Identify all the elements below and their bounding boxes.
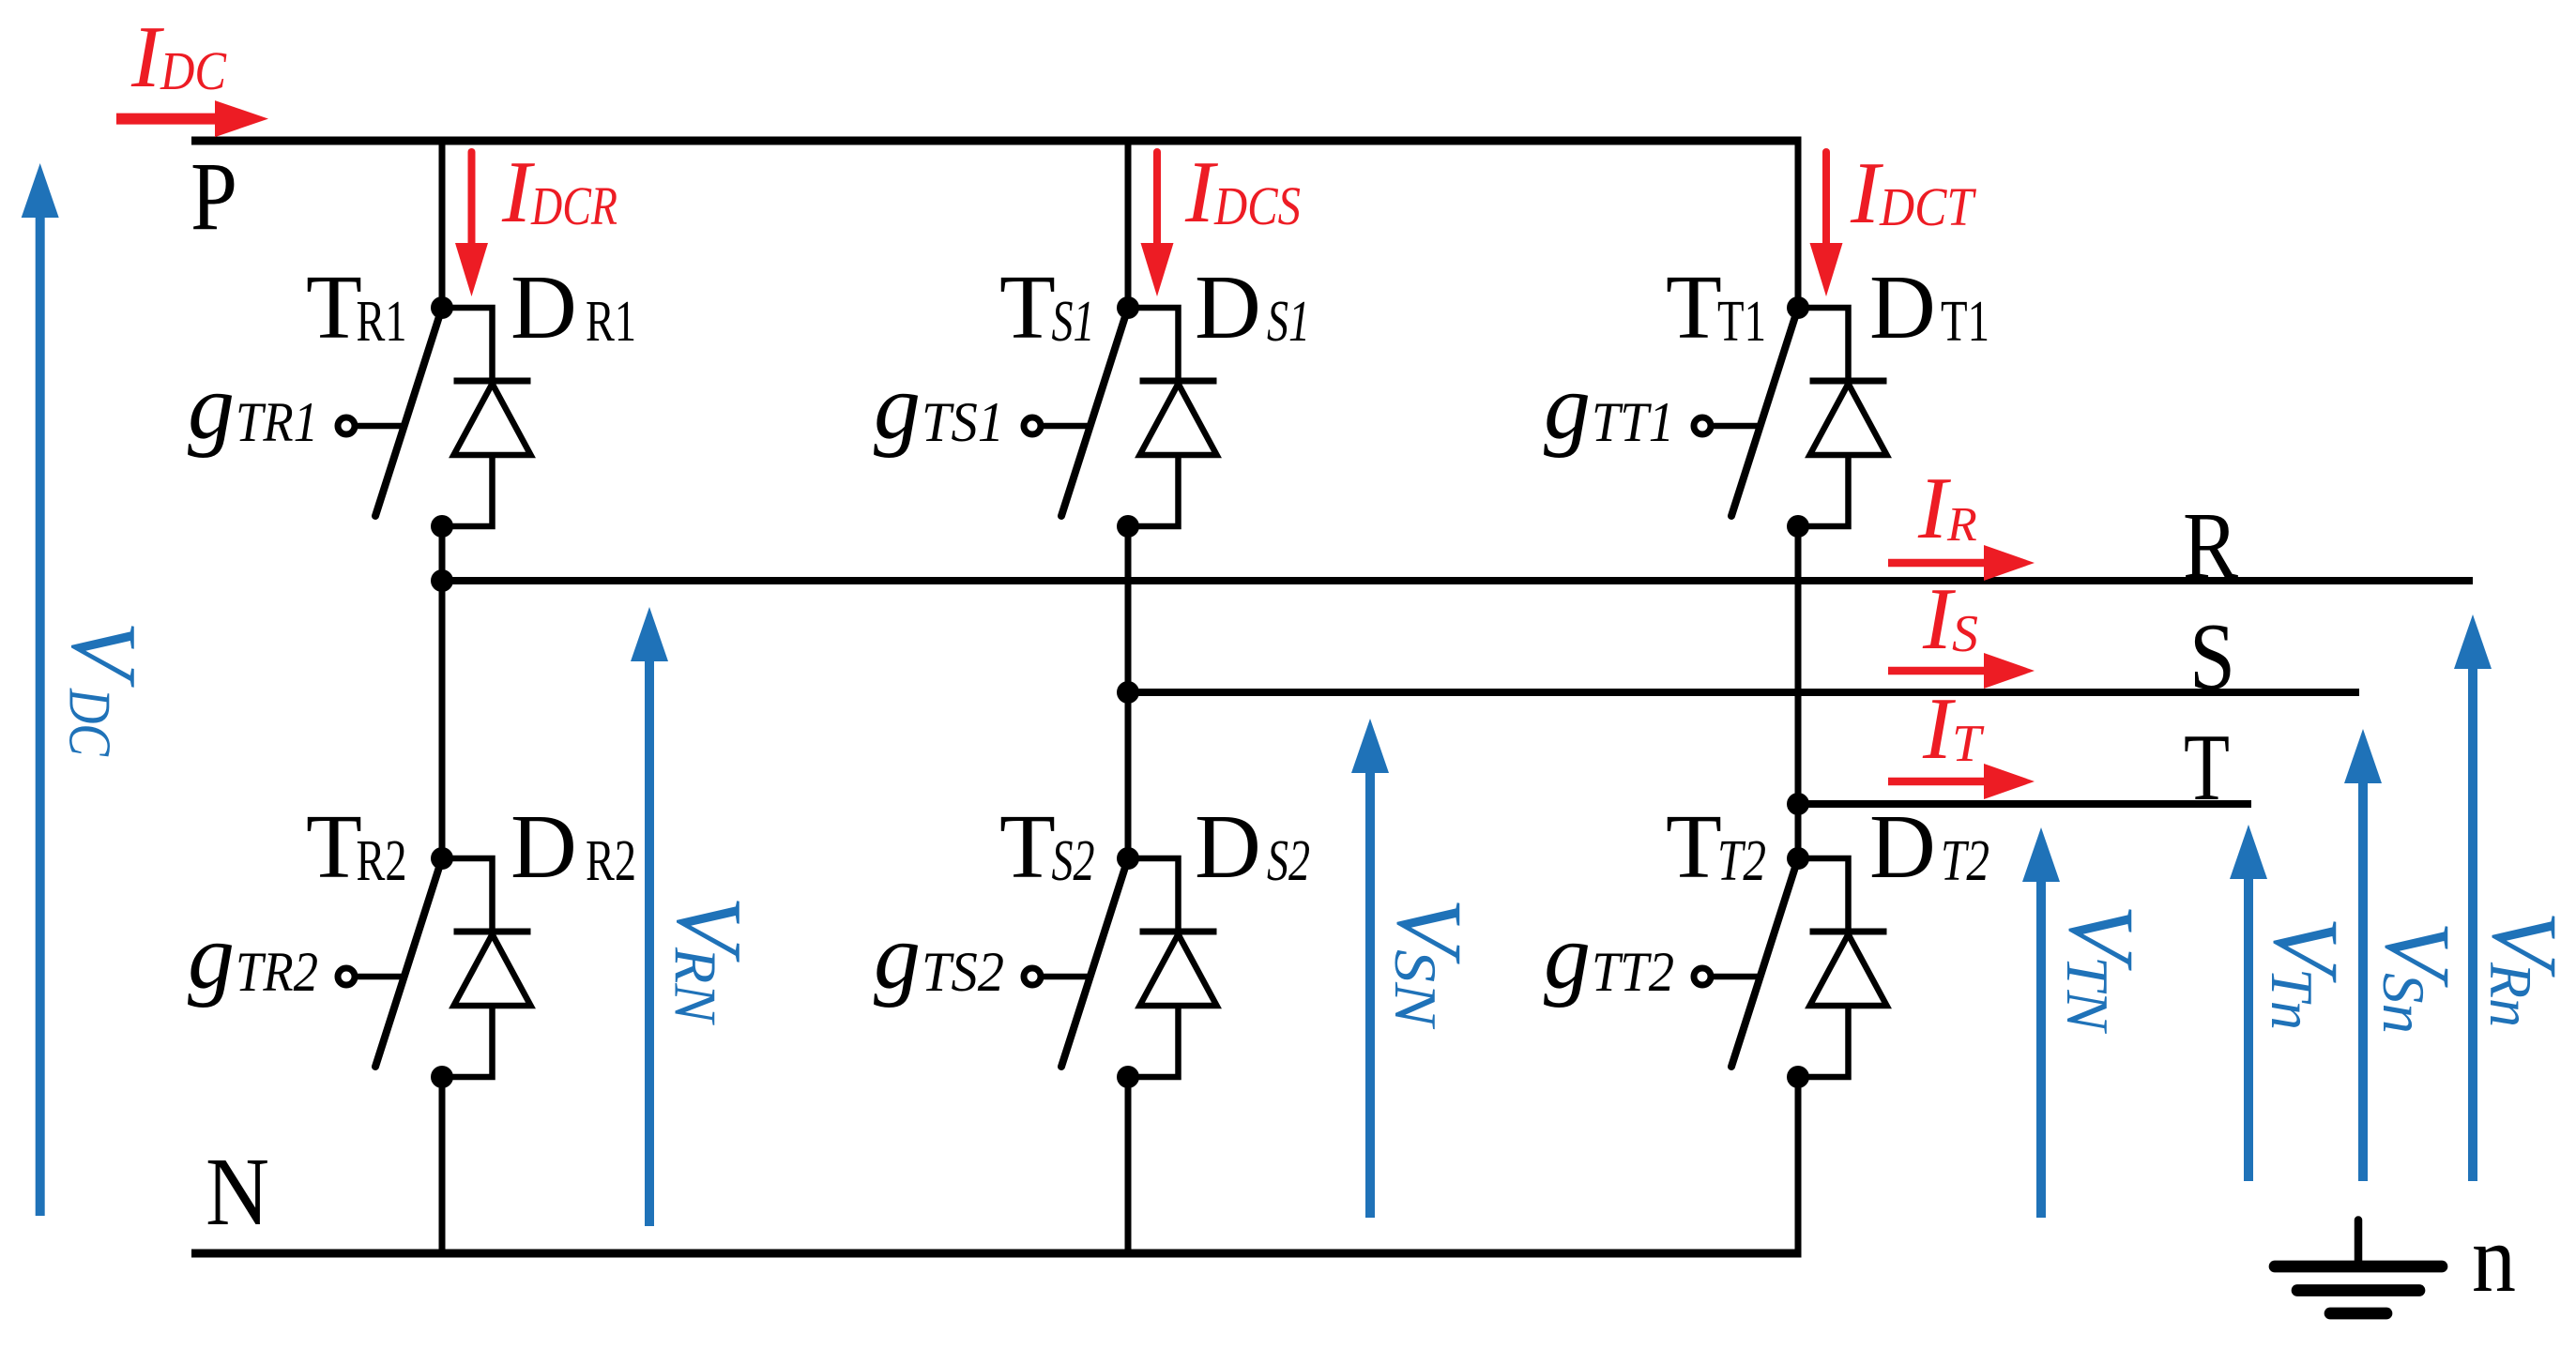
node: collector of TS1: [1117, 296, 1139, 319]
svg-text:S: S: [2189, 604, 2235, 710]
wire: output line R: [442, 577, 2473, 584]
ground symbol (node n): [2275, 1220, 2442, 1314]
diode DT1: [1798, 308, 1887, 526]
voltage arrow V_TN: [2022, 827, 2060, 1218]
svg-text:T: T: [999, 257, 1056, 358]
label TS2: [999, 796, 1095, 898]
svg-text:R1: R1: [357, 290, 407, 354]
node: collector of TS2: [1117, 847, 1139, 870]
wire: R-leg from TR2 to N rail: [439, 1077, 446, 1253]
wire: T-leg middle section: [1795, 526, 1802, 858]
svg-text:D: D: [1195, 257, 1261, 358]
svg-text:S2: S2: [1052, 829, 1095, 893]
diode DT2: [1798, 858, 1887, 1077]
svg-text:N: N: [206, 1138, 269, 1246]
diode DR1: [442, 308, 531, 526]
node: R line junction: [431, 569, 453, 592]
wire: output line S: [1128, 689, 2359, 696]
diode DS2: [1128, 858, 1217, 1077]
label TT2: [1666, 796, 1766, 898]
gate lead gT1: [1694, 417, 1758, 434]
gate lead gR2: [338, 968, 402, 985]
node: emitter of TR1: [431, 515, 453, 538]
svg-text:V: V: [53, 621, 157, 688]
label V_Sn: [2366, 921, 2470, 1034]
voltage arrow V_DC: [22, 163, 59, 1216]
svg-text:TT2: TT2: [1592, 941, 1674, 1003]
label V_TN: [2050, 904, 2154, 1034]
wire: output line T: [1798, 800, 2251, 808]
node: emitter of TT2: [1787, 1066, 1809, 1088]
label V_DC: [53, 621, 157, 757]
voltage arrow V_Rn: [2454, 614, 2492, 1181]
label TR2: [306, 796, 407, 898]
svg-text:DCT: DCT: [1879, 176, 1976, 237]
svg-text:g: g: [1544, 355, 1591, 459]
current arrow I_DC: [116, 100, 268, 137]
label g_TS1: [874, 355, 1004, 459]
svg-text:R2: R2: [586, 829, 636, 893]
svg-text:D: D: [1869, 796, 1936, 898]
svg-text:T: T: [306, 796, 362, 898]
node: collector of TR1: [431, 296, 453, 319]
label V_Rn: [2473, 911, 2576, 1027]
label DS1: [1195, 257, 1310, 358]
label TR1: [306, 257, 407, 358]
transistor TT1 (ideal switch blade): [1731, 308, 1798, 516]
svg-text:TN: TN: [2054, 956, 2121, 1034]
svg-text:D: D: [1869, 257, 1936, 358]
svg-text:g: g: [874, 355, 921, 459]
svg-text:I: I: [1922, 680, 1956, 778]
label DR1: [511, 257, 636, 358]
svg-text:T2: T2: [1717, 829, 1766, 893]
svg-text:TS1: TS1: [922, 391, 1004, 453]
transistor TS2 (ideal switch blade): [1061, 858, 1128, 1067]
node: emitter of TS2: [1117, 1066, 1139, 1088]
wire: R-leg middle section: [439, 526, 446, 858]
current arrow I_R: [1888, 545, 2035, 581]
svg-text:I: I: [1850, 144, 1883, 242]
node: collector of TT2: [1787, 847, 1809, 870]
svg-text:R1: R1: [586, 290, 636, 354]
svg-text:T2: T2: [1941, 829, 1989, 893]
svg-text:g: g: [188, 904, 235, 1008]
diode DS1: [1128, 308, 1217, 526]
current arrow I_DCT: [1810, 152, 1843, 296]
svg-text:g: g: [1544, 904, 1591, 1008]
svg-text:I: I: [1917, 460, 1951, 557]
transistor TR1 (ideal switch blade): [375, 308, 442, 516]
transistor TT2 (ideal switch blade): [1731, 858, 1798, 1067]
svg-text:TR2: TR2: [236, 941, 318, 1003]
wire: R-leg from P rail to TR1: [439, 141, 446, 308]
gate lead gR1: [338, 417, 402, 434]
svg-text:T1: T1: [1717, 290, 1766, 354]
label DS2: [1195, 796, 1310, 898]
gate lead gT2: [1694, 968, 1758, 985]
svg-text:Sn: Sn: [2370, 973, 2437, 1034]
voltage arrow V_Tn: [2230, 825, 2267, 1181]
label DT2: [1869, 796, 1989, 898]
svg-text:S1: S1: [1267, 290, 1310, 354]
svg-text:S: S: [1952, 605, 1978, 663]
svg-text:T: T: [999, 796, 1056, 898]
label g_TR2: [188, 904, 318, 1008]
svg-text:T: T: [1666, 796, 1722, 898]
wire: S-leg from P rail to TS1: [1125, 141, 1132, 308]
svg-text:Tn: Tn: [2259, 968, 2325, 1030]
node: S line junction: [1117, 681, 1139, 704]
svg-text:S2: S2: [1267, 829, 1310, 893]
svg-text:T: T: [1666, 257, 1722, 358]
svg-text:TS2: TS2: [922, 941, 1004, 1003]
node: collector of TR2: [431, 847, 453, 870]
transistor TR2 (ideal switch blade): [375, 858, 442, 1067]
label DR2: [511, 796, 636, 898]
svg-text:R: R: [2183, 493, 2238, 599]
svg-text:T: T: [2184, 715, 2230, 821]
svg-text:g: g: [188, 355, 235, 459]
svg-text:I: I: [1922, 570, 1956, 668]
label V_Tn: [2254, 917, 2358, 1030]
svg-text:DCR: DCR: [530, 175, 617, 236]
node: collector of TT1: [1787, 296, 1809, 319]
current arrow I_DCR: [455, 152, 488, 296]
current arrow I_DCS: [1141, 152, 1174, 296]
svg-text:n: n: [2472, 1205, 2516, 1312]
label g_TR1: [188, 355, 318, 459]
svg-text:I: I: [130, 8, 164, 106]
diode DR2: [442, 858, 531, 1077]
wire: T-leg from P rail to TT1: [1795, 137, 1802, 309]
label TS1: [999, 257, 1095, 358]
svg-text:I: I: [501, 144, 535, 241]
label V_SN: [1378, 898, 1482, 1030]
voltage arrow V_RN: [631, 607, 668, 1226]
label g_TT2: [1544, 904, 1674, 1008]
svg-text:T: T: [306, 257, 362, 358]
svg-text:TT1: TT1: [1592, 391, 1674, 453]
node: emitter of TT1: [1787, 515, 1809, 538]
node: emitter of TS1: [1117, 515, 1139, 538]
label g_TS2: [874, 904, 1004, 1008]
svg-text:R: R: [1946, 498, 1977, 552]
voltage arrow V_SN: [1351, 719, 1389, 1218]
gate lead gS1: [1024, 417, 1088, 434]
svg-text:RN: RN: [663, 947, 729, 1025]
wire: positive DC rail P: [191, 137, 1802, 145]
gate lead gS2: [1024, 968, 1088, 985]
voltage arrow V_Sn: [2344, 729, 2382, 1181]
wire: T-leg from TT2 to N rail: [1795, 1077, 1802, 1258]
svg-text:D: D: [511, 796, 577, 898]
svg-text:R2: R2: [357, 829, 407, 893]
svg-text:P: P: [191, 143, 237, 250]
svg-text:SN: SN: [1382, 949, 1449, 1030]
label DT1: [1869, 257, 1989, 358]
node: T line junction: [1787, 793, 1809, 815]
svg-text:DC: DC: [160, 40, 227, 101]
wire: negative DC rail N: [191, 1250, 1802, 1258]
svg-text:D: D: [511, 257, 577, 358]
current arrow I_T: [1888, 764, 2035, 799]
transistor TS1 (ideal switch blade): [1061, 308, 1128, 516]
svg-text:I: I: [1184, 144, 1218, 241]
label V_RN: [658, 896, 762, 1025]
node: emitter of TR2: [431, 1066, 453, 1088]
svg-text:T1: T1: [1941, 290, 1989, 354]
svg-text:S1: S1: [1052, 290, 1095, 354]
svg-text:TR1: TR1: [236, 391, 318, 453]
svg-text:DCS: DCS: [1213, 175, 1301, 236]
wire: S-leg middle section: [1125, 526, 1132, 858]
svg-text:T: T: [1952, 715, 1985, 773]
current arrow I_S: [1888, 653, 2035, 689]
label TT1: [1666, 257, 1766, 358]
svg-text:g: g: [874, 904, 921, 1008]
label g_TT1: [1544, 355, 1674, 459]
wire: S-leg from TS2 to N rail: [1125, 1077, 1132, 1253]
svg-text:Rn: Rn: [2477, 962, 2544, 1027]
svg-text:DC: DC: [57, 688, 124, 757]
svg-text:D: D: [1195, 796, 1261, 898]
